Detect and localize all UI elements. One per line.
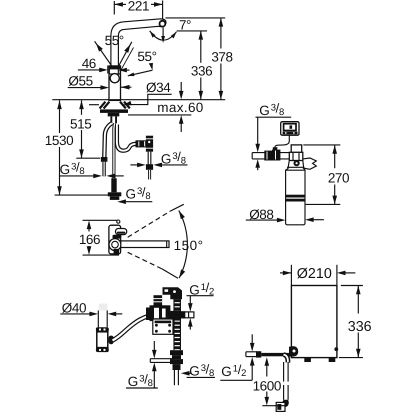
cross junction — [168, 311, 174, 320]
hose fitting — [256, 351, 261, 357]
lever cap — [109, 66, 120, 74]
hose to valve — [113, 316, 150, 341]
svg-text:55°: 55° — [137, 49, 156, 64]
shank body — [97, 332, 108, 348]
counter top line — [52, 99, 225, 101]
dim 336 line — [357, 286, 359, 314]
bottom connector — [276, 402, 285, 411]
55deg-2 leader line — [128, 70, 153, 76]
counter bottom line right — [128, 114, 191, 116]
7deg reference line — [177, 30, 207, 32]
dim O40 leader — [60, 313, 90, 315]
elbow top — [163, 287, 183, 299]
inlet valve — [264, 151, 272, 161]
faucet body — [109, 66, 121, 100]
svg-text:336: 336 — [191, 63, 212, 78]
150deg arc — [179, 211, 188, 279]
dim O210 line — [283, 272, 291, 274]
counter ghost — [99, 304, 108, 311]
svg-text:1530: 1530 — [45, 133, 73, 148]
cylinder bands — [286, 195, 305, 198]
hose vertical tube — [283, 362, 285, 382]
outlet small circle — [117, 220, 120, 223]
dim 221 extension line right — [162, 1, 164, 20]
dim 515 bottom extension — [76, 157, 100, 159]
G3/8 callout arrows at outlet tube — [153, 341, 155, 350]
55deg-2 leader wedge — [149, 63, 153, 70]
hose end connector — [146, 311, 152, 320]
head-cylinder transition — [286, 160, 305, 170]
spout outlet circle — [160, 21, 166, 27]
svg-text:221: 221 — [128, 0, 149, 13]
trap hose to check valve — [117, 125, 137, 151]
dim 1530 line — [59, 100, 61, 133]
dim 1600 bottom extension — [262, 405, 285, 407]
inlet hose tube end — [246, 351, 257, 353]
dim 1530 bottom extension — [55, 194, 108, 196]
left hose fitting — [101, 157, 108, 162]
filter cylinder — [286, 170, 305, 225]
dim 336 line — [200, 31, 202, 63]
svg-text:Ø55: Ø55 — [68, 74, 92, 89]
svg-text:46: 46 — [82, 56, 96, 71]
hose bottom elbow — [281, 400, 289, 407]
middle hose fitting — [111, 178, 116, 192]
dim 378 top extension — [166, 17, 226, 19]
check valve — [146, 136, 153, 152]
threaded shank — [110, 116, 117, 123]
lever plan — [116, 229, 127, 235]
inlet pipe — [252, 152, 289, 154]
dim O88 leader — [246, 219, 277, 221]
middle hose — [112, 123, 116, 178]
left hose — [104, 123, 112, 157]
svg-text:378: 378 — [211, 49, 232, 64]
svg-text:55°: 55° — [105, 33, 124, 48]
feet — [304, 358, 311, 362]
G1/2 nipple — [181, 312, 194, 318]
dim O55 leader — [68, 87, 101, 89]
shank pipe — [97, 310, 99, 327]
dim 221 line — [114, 3, 126, 5]
hose elbow knob — [109, 336, 114, 345]
spout bar plan — [121, 241, 169, 248]
screw mark — [114, 249, 120, 254]
boiler box — [291, 286, 337, 358]
lever pivot circle — [110, 74, 119, 83]
svg-text:7°: 7° — [179, 17, 191, 32]
wall bracket — [303, 158, 317, 169]
valve left rings — [146, 308, 150, 318]
hose bend down — [284, 355, 288, 363]
under-counter flange — [100, 109, 128, 113]
tube below fitting — [173, 370, 175, 385]
G1/2 callout at hose end — [251, 334, 253, 343]
dim 270 top extension — [303, 144, 340, 146]
head knob — [294, 160, 300, 166]
dim 336 extensions — [341, 285, 363, 287]
dim 166 line — [88, 227, 90, 232]
display unit — [281, 122, 299, 136]
mounting nut — [108, 113, 120, 117]
dim 166 bottom extension — [83, 254, 120, 256]
dim O210 extensions — [290, 265, 292, 286]
svg-text:1600: 1600 — [253, 378, 281, 393]
display wire — [275, 135, 290, 148]
water stream line — [162, 28, 164, 40]
svg-text:270: 270 — [328, 171, 349, 186]
cord bump — [334, 347, 338, 351]
elbow block — [136, 140, 146, 147]
dim 378 line — [220, 18, 222, 49]
riser tube segmented — [174, 299, 181, 349]
swivel ray lower — [128, 252, 162, 268]
riser bottom fitting — [170, 350, 183, 355]
hose hook fitting at box corner — [289, 346, 298, 356]
dim 166 top extension — [83, 219, 118, 221]
faucet body plan — [109, 225, 121, 254]
dim 270 bottom extension — [306, 203, 341, 205]
svg-text:Ø34: Ø34 — [146, 80, 171, 95]
svg-text:Ø210: Ø210 — [297, 266, 332, 282]
dim 221 extension line left — [113, 1, 115, 15]
counter hatching — [100, 102, 130, 109]
svg-text:Ø40: Ø40 — [62, 300, 86, 315]
svg-text:166: 166 — [79, 232, 100, 247]
outlet tube left — [150, 358, 173, 360]
filter head — [291, 145, 302, 153]
connector stack — [154, 295, 163, 306]
svg-text:150°: 150° — [174, 238, 204, 253]
max.60 dim arrows — [180, 82, 182, 92]
shank ring bottom — [96, 348, 109, 353]
dim 270 line — [334, 145, 336, 168]
hose dark run — [261, 353, 291, 356]
mounting plate — [153, 319, 173, 334]
dim 515 line — [81, 100, 83, 115]
55deg angle line right — [118, 42, 132, 68]
55deg angle line left — [95, 41, 113, 67]
shank ring top — [96, 327, 109, 332]
svg-text:336: 336 — [348, 319, 372, 335]
handle tilted line — [119, 48, 134, 74]
7deg arc — [150, 31, 177, 40]
dim O34 leader — [126, 94, 172, 104]
dim 1600 line — [265, 357, 270, 366]
svg-text:515: 515 — [70, 116, 91, 131]
dim 46 leader — [78, 69, 100, 71]
valve body — [150, 305, 171, 321]
spout outline — [111, 19, 166, 66]
swivel ray upper — [128, 211, 171, 237]
svg-text:max.60: max.60 — [157, 100, 203, 115]
counter bottom line left — [89, 104, 99, 106]
pivot circles — [109, 239, 121, 251]
